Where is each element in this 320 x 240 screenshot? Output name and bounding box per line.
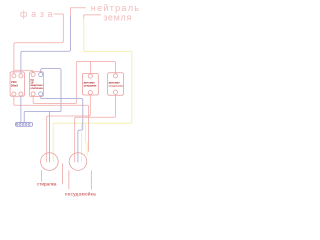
wire U1 phase out to socket X2 top right <box>14 96 89 151</box>
wire phase feed from фаза down-left-down to U1 input <box>14 14 63 74</box>
breaker U3 value label <box>84 80 97 87</box>
breaker U3 автомат body <box>83 74 99 96</box>
wire U3 out down-left-down to socket X1 <box>47 95 91 163</box>
svg-text:отключен.: отключен. <box>30 87 43 90</box>
wire нейтраль stub <box>71 7 86 9</box>
svg-text:земля: земля <box>103 13 132 23</box>
breaker U2 УЗО body <box>30 72 44 97</box>
svg-text:посудомойки: посудомойки <box>109 84 124 87</box>
socket X2 leader left <box>68 170 70 189</box>
socket X1 leader left <box>40 170 42 181</box>
wire U2 neutral out to socket X2 <box>41 96 83 162</box>
wire phase jumper drop into U2 <box>31 70 33 72</box>
wire ground drop to socket X2 <box>80 123 82 162</box>
socket X1 стиралка <box>41 153 59 171</box>
socket X1 leader right <box>62 163 64 184</box>
wire neutral drop to socket X1 <box>49 111 51 162</box>
breaker U1 УЗО body <box>10 72 24 96</box>
wire фаза stub <box>54 13 64 15</box>
wire ground drop to socket X1 <box>52 123 54 162</box>
socket X2 посудомойка <box>69 153 87 171</box>
svg-text:стиралка: стиралка <box>37 181 57 186</box>
svg-text:фаза: фаза <box>20 9 56 19</box>
breaker U2 value label <box>30 78 43 90</box>
wire phase drop to U3 <box>90 61 92 74</box>
svg-text:нейтраль: нейтраль <box>91 3 140 13</box>
wire phase bus to U4 <box>76 61 115 73</box>
breaker U4 value label <box>109 80 124 87</box>
wire ground branch to socket X2 right edge <box>86 123 88 156</box>
wire U4 out down-left-down to socket X2 <box>75 94 116 162</box>
breaker U1 value label <box>11 80 18 87</box>
breaker U4 автомат body <box>108 73 124 95</box>
terminal bar N (нулевая шина) <box>16 123 33 127</box>
svg-text:посудомойка: посудомойка <box>65 191 96 197</box>
wire U1 neutral out down to N bar <box>20 96 22 122</box>
wire ground feed upper pink part <box>83 15 85 20</box>
wire neutral feed upper pink part <box>70 8 72 17</box>
wire ground feed down and right <box>84 19 132 52</box>
svg-text:30мА: 30мА <box>11 83 18 87</box>
wire neutral jumper riser to U2 N input <box>41 69 61 112</box>
wire N bar up and right <box>24 111 61 122</box>
svg-text:автомат: автомат <box>109 80 121 84</box>
svg-text:стиралки: стиралки <box>84 83 97 87</box>
wire ground bottom bus <box>53 122 132 124</box>
wire ground right drop <box>131 51 133 123</box>
wire U2 phase out right and up riser <box>33 63 76 103</box>
socket X2 leader right <box>90 170 92 189</box>
wire neutral feed down-left-down to U1 N input <box>21 16 71 74</box>
wire phase jumper U1 input to U2 input <box>14 69 31 71</box>
wire земля stub <box>84 14 101 16</box>
